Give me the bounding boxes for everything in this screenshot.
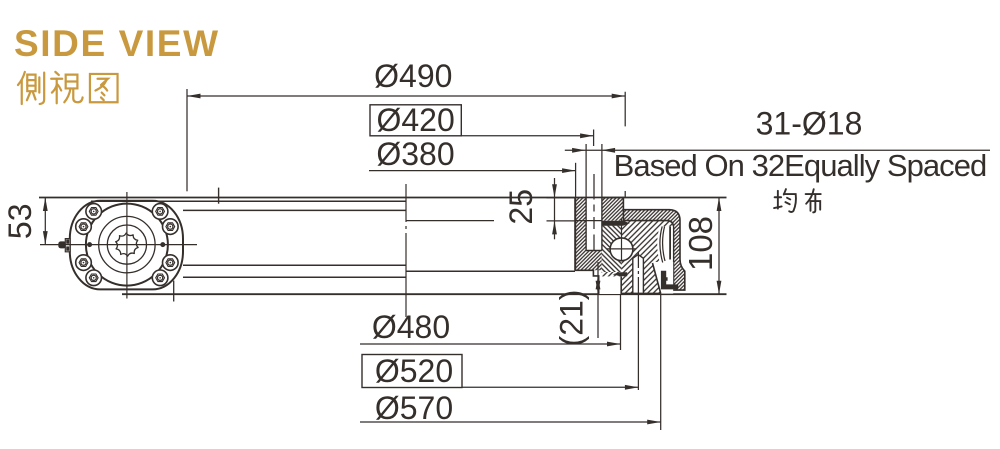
note chinese 布: [806, 189, 821, 212]
lower hole centerline: [637, 252, 639, 390]
centerline dot right: [160, 242, 165, 247]
ring lower right white: [652, 262, 673, 294]
dim 570 ext: [660, 293, 662, 430]
flange circle inner: [107, 225, 146, 264]
dim 108 line: [718, 198, 720, 295]
dim 490 ext left: [186, 89, 188, 191]
dim 108 text: [682, 216, 719, 271]
centerline dot left: [87, 242, 92, 247]
dim 25 text: [503, 189, 539, 225]
bearing seat line: [406, 220, 494, 222]
block step edge: [602, 198, 624, 210]
ball centerline v: [621, 219, 623, 262]
tooth wedge lower: [613, 272, 628, 276]
dim 18 line: [565, 149, 990, 151]
bolt hole lower white: [633, 255, 644, 294]
grease nipple: [58, 239, 70, 252]
gear ring left face: [620, 276, 622, 294]
svg-text:108: 108: [682, 216, 719, 271]
dim 520 line: [462, 386, 638, 388]
dim 21 text: [554, 290, 590, 347]
section left edge: [574, 198, 576, 271]
flange socket bolts x8: [163, 219, 179, 235]
title chinese 视: [51, 72, 82, 103]
flange circle mid: [99, 216, 155, 272]
housing bottom step line: [406, 270, 575, 272]
base bottom line: [122, 293, 727, 295]
dim 53 line: [44, 198, 46, 245]
dim 18 ext lines: [586, 144, 602, 198]
dim 420 line: [461, 135, 593, 137]
svg-text:Ø570: Ø570: [375, 390, 453, 426]
housing line 4: [183, 276, 406, 278]
dim 21 line: [597, 262, 599, 338]
ring bottom edge: [621, 292, 661, 294]
worm flange outline: [70, 201, 183, 290]
seal crescent white: [657, 226, 673, 284]
title chinese 侧: [18, 72, 44, 104]
svg-text:Based On 32Equally Spaced: Based On 32Equally Spaced: [614, 148, 987, 183]
housing line 2: [183, 209, 406, 211]
ring joint line: [575, 220, 601, 222]
flange centerline vertical: [126, 192, 128, 299]
svg-text:Ø490: Ø490: [374, 58, 452, 94]
outer ring upper hatch: [576, 198, 602, 271]
bolt hole upper edges: [586, 198, 602, 251]
title SIDE VIEW: [14, 25, 220, 62]
worm shaft spline bore: [116, 233, 138, 256]
seal black: [661, 271, 678, 290]
bolt hole lower edges: [633, 255, 644, 294]
housing top line: [39, 197, 727, 199]
worm axis centerline: [40, 244, 197, 246]
dim 490 ext right: [624, 92, 626, 198]
dim 380 ext: [575, 163, 577, 198]
svg-text:Ø480: Ø480: [372, 309, 450, 345]
worm wheel hatch back: [602, 226, 622, 272]
housing tangent line upper: [91, 200, 406, 202]
housing line 3: [183, 264, 406, 266]
ball centerline h: [607, 248, 637, 250]
dim 420 box: [370, 105, 461, 136]
bolt hole upper white: [586, 198, 602, 250]
dim 53 text: [2, 204, 38, 240]
cover elbow band hatch: [623, 210, 684, 290]
title chinese 图: [90, 74, 118, 102]
dim 25 line: [554, 178, 556, 239]
gear ring hatch wide: [602, 221, 674, 294]
svg-text:25: 25: [503, 189, 539, 225]
bolt hole centerline: [593, 174, 595, 251]
outer ring bottom step: [575, 270, 599, 294]
svg-text:Ø520: Ø520: [375, 353, 453, 389]
svg-text:53: 53: [2, 204, 38, 240]
flange pilot circle: [86, 204, 168, 286]
note chinese 均: [774, 189, 796, 212]
flange joint edge: [173, 281, 175, 302]
dim 25 ticks: [547, 198, 576, 221]
dim 480 ext: [620, 294, 622, 350]
tooth wedge upper: [602, 221, 630, 226]
bearing ball: [610, 238, 633, 261]
svg-text:Ø420: Ø420: [376, 102, 454, 138]
svg-text:31-Ø18: 31-Ø18: [756, 106, 863, 142]
crescent arc 2: [663, 226, 665, 261]
svg-text:(21): (21): [554, 290, 590, 347]
svg-text:Ø380: Ø380: [376, 136, 454, 172]
housing edge tick: [218, 188, 220, 204]
dim 520 box: [362, 355, 462, 388]
dim 380 line: [369, 170, 576, 172]
dim 570 line: [360, 421, 661, 423]
dim 420 tick: [593, 130, 595, 147]
outer ring block hatch: [602, 198, 623, 221]
bearing axis centerline: [405, 184, 407, 317]
crescent arc 1: [660, 226, 663, 262]
ring lower right slant: [653, 263, 661, 293]
ring bottom gap white: [599, 276, 622, 294]
seal land edge: [669, 226, 671, 259]
dim 480 line: [360, 343, 621, 345]
dim 490 line: [187, 95, 625, 97]
